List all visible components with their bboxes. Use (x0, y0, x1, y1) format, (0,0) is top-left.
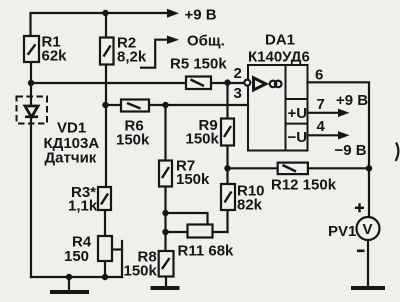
svg-text:1,1k: 1,1k (68, 198, 98, 215)
svg-text:3: 3 (234, 85, 242, 102)
svg-text:8,2k: 8,2k (117, 49, 147, 66)
svg-text:150k: 150k (124, 263, 158, 280)
svg-text:PV1: PV1 (328, 223, 356, 240)
svg-text:V: V (363, 221, 373, 238)
svg-text:+U: +U (288, 105, 308, 122)
svg-text:Датчик: Датчик (45, 150, 97, 167)
svg-text:7: 7 (317, 96, 325, 113)
svg-text:R12 150k: R12 150k (271, 177, 337, 194)
svg-text:150k: 150k (116, 132, 150, 149)
svg-text:R5 150k: R5 150k (170, 56, 227, 73)
svg-text:+9 В: +9 В (185, 7, 217, 24)
svg-text:−9 В: −9 В (335, 142, 367, 159)
svg-text:DA1: DA1 (265, 32, 295, 49)
svg-text:62k: 62k (42, 48, 68, 65)
svg-text:2: 2 (234, 65, 242, 82)
svg-text:VD1: VD1 (57, 120, 86, 137)
svg-text:+9 В: +9 В (336, 92, 368, 109)
svg-text:6: 6 (315, 67, 323, 84)
svg-text:К140УД6: К140УД6 (248, 49, 310, 66)
svg-text:150k: 150k (186, 131, 220, 148)
svg-text:4: 4 (317, 118, 326, 135)
svg-text:R11 68k: R11 68k (178, 243, 235, 260)
svg-text:150k: 150k (176, 171, 210, 188)
svg-text:Общ.: Общ. (187, 33, 225, 50)
svg-text:150: 150 (64, 248, 89, 265)
svg-text:−U: −U (288, 129, 308, 146)
svg-text:82k: 82k (237, 197, 263, 214)
